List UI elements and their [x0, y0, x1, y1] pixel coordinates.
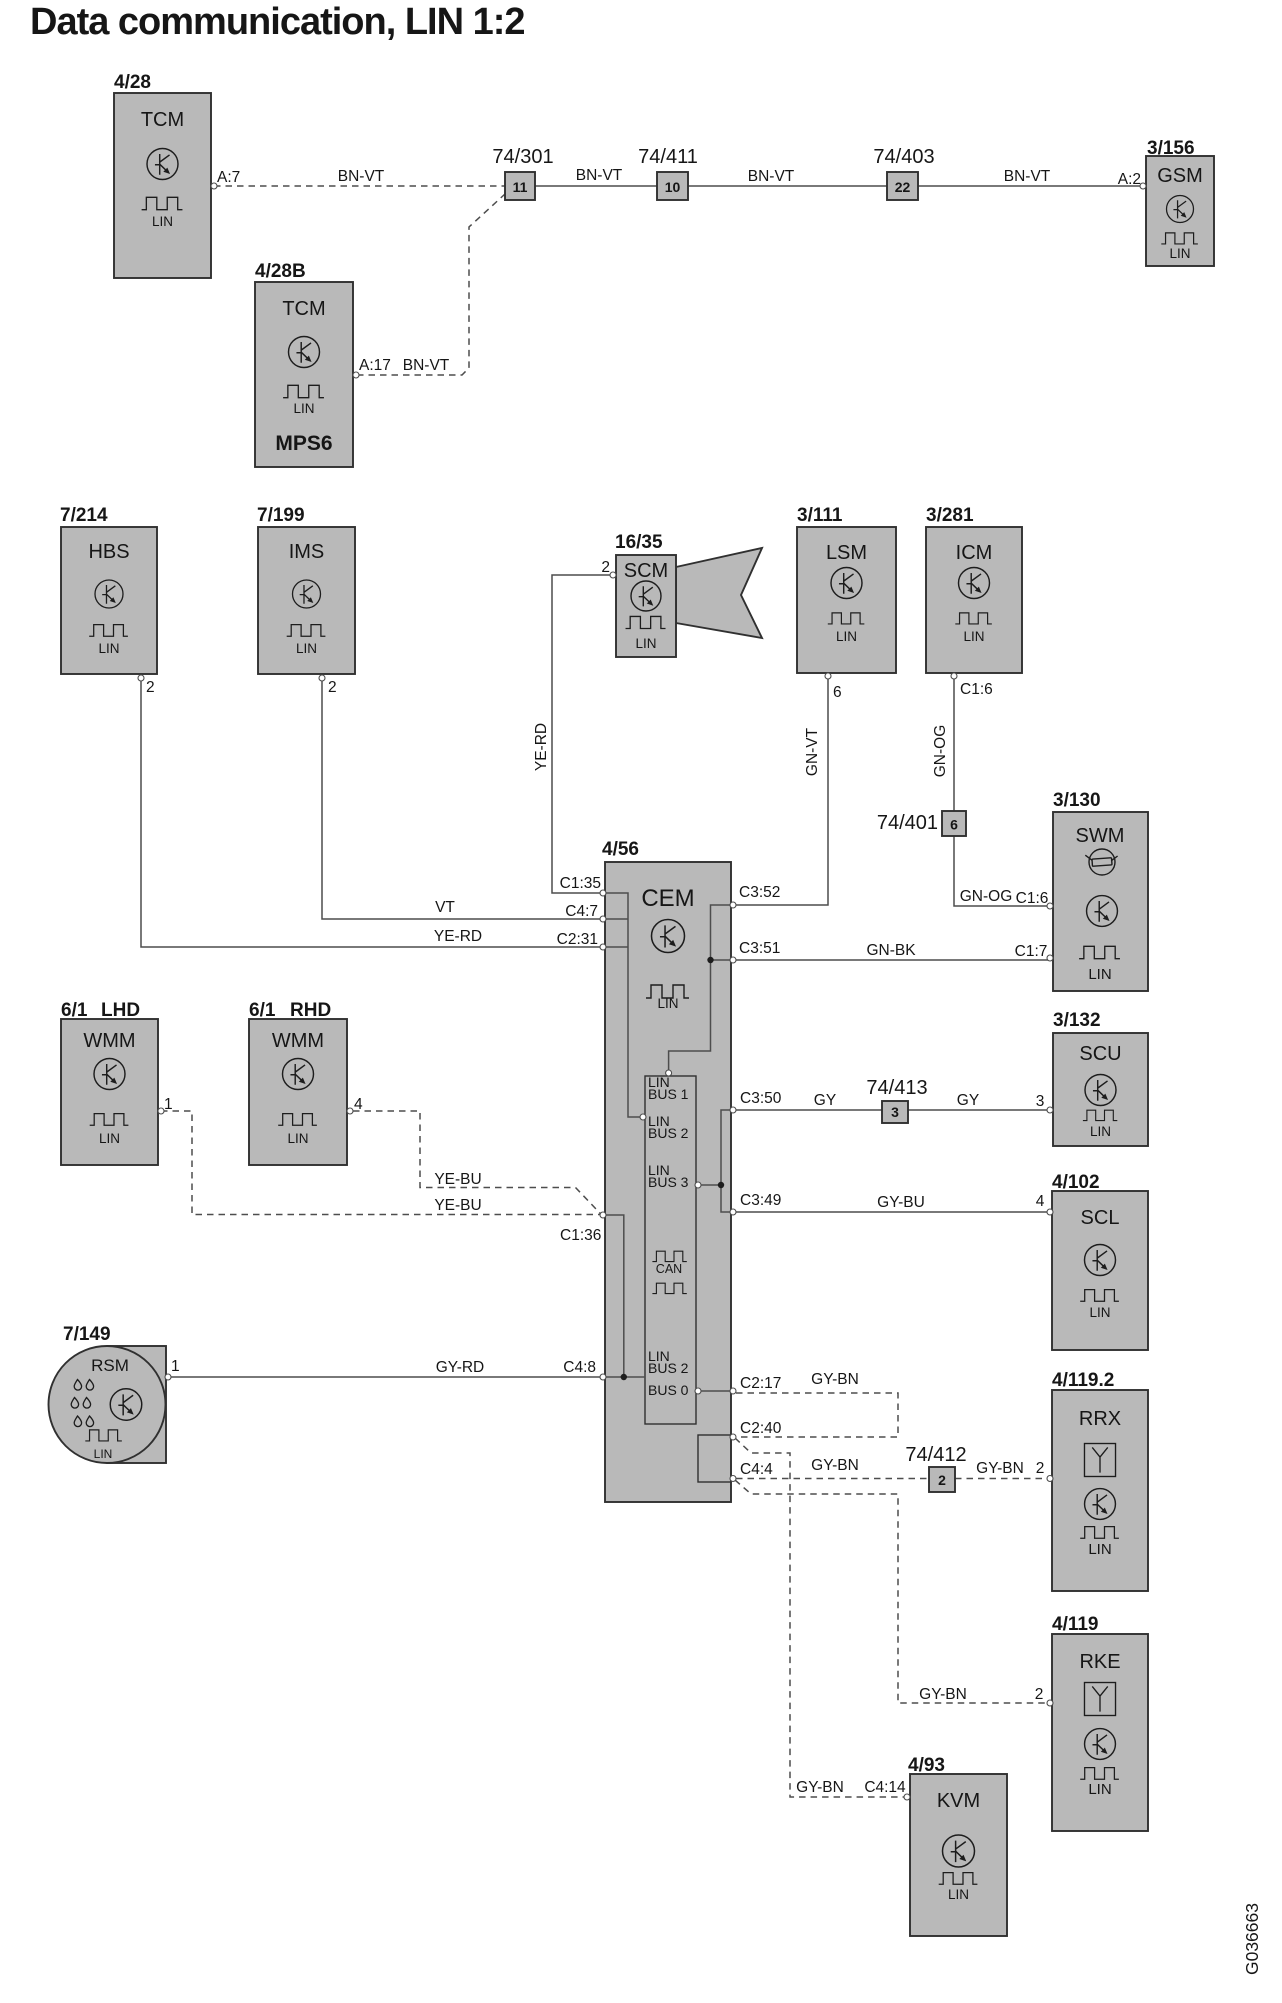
- svg-text:11: 11: [513, 179, 528, 195]
- svg-text:3: 3: [1036, 1093, 1045, 1110]
- svg-text:2: 2: [938, 1472, 946, 1488]
- svg-text:C3:49: C3:49: [740, 1192, 781, 1209]
- svg-text:C4:8: C4:8: [563, 1359, 596, 1376]
- svg-text:BUS 0: BUS 0: [648, 1382, 689, 1398]
- svg-text:74/401: 74/401: [877, 812, 938, 834]
- svg-text:TCM: TCM: [141, 109, 184, 131]
- svg-text:MPS6: MPS6: [275, 432, 332, 455]
- svg-text:LHD: LHD: [101, 1000, 140, 1021]
- svg-text:ICM: ICM: [956, 542, 993, 564]
- svg-text:LIN: LIN: [948, 1887, 969, 1902]
- svg-text:1: 1: [171, 1358, 180, 1375]
- svg-text:SWM: SWM: [1076, 825, 1125, 847]
- svg-text:74/301: 74/301: [492, 146, 553, 168]
- svg-text:YE-RD: YE-RD: [434, 928, 482, 945]
- svg-text:TCM: TCM: [282, 298, 325, 320]
- svg-text:4: 4: [354, 1096, 363, 1113]
- svg-text:C1:6: C1:6: [960, 681, 993, 698]
- svg-text:KVM: KVM: [937, 1790, 980, 1812]
- svg-text:LIN: LIN: [1088, 1541, 1111, 1558]
- svg-text:C2:31: C2:31: [557, 931, 598, 948]
- svg-text:SCM: SCM: [624, 560, 668, 582]
- svg-text:C1:35: C1:35: [560, 875, 601, 892]
- svg-text:BN-VT: BN-VT: [748, 168, 795, 185]
- svg-text:3: 3: [891, 1104, 899, 1120]
- svg-text:HBS: HBS: [88, 541, 129, 563]
- svg-text:BN-VT: BN-VT: [338, 168, 385, 185]
- svg-text:WMM: WMM: [272, 1030, 324, 1052]
- svg-text:C4:14: C4:14: [864, 1779, 906, 1796]
- svg-text:GN-VT: GN-VT: [804, 727, 821, 776]
- svg-text:LIN: LIN: [836, 629, 857, 644]
- svg-text:BN-VT: BN-VT: [403, 357, 450, 374]
- svg-text:SCL: SCL: [1081, 1207, 1120, 1229]
- svg-text:3/132: 3/132: [1053, 1010, 1101, 1031]
- svg-text:GY-RD: GY-RD: [436, 1359, 485, 1376]
- svg-text:LIN: LIN: [635, 636, 656, 651]
- svg-text:10: 10: [665, 179, 681, 195]
- svg-text:LIN: LIN: [657, 996, 678, 1011]
- svg-text:BUS 1: BUS 1: [648, 1086, 689, 1102]
- svg-text:GY: GY: [957, 1092, 979, 1109]
- svg-text:A:7: A:7: [217, 169, 240, 186]
- svg-text:A:2: A:2: [1118, 171, 1141, 188]
- svg-text:SCU: SCU: [1079, 1043, 1121, 1065]
- svg-text:GY-BN: GY-BN: [919, 1686, 967, 1703]
- svg-text:C2:17: C2:17: [740, 1375, 781, 1392]
- svg-text:3/156: 3/156: [1147, 138, 1195, 159]
- svg-text:22: 22: [895, 179, 911, 195]
- svg-text:GY-BN: GY-BN: [811, 1371, 859, 1388]
- svg-text:4/28B: 4/28B: [255, 261, 306, 282]
- svg-text:74/411: 74/411: [638, 146, 698, 168]
- svg-text:74/413: 74/413: [866, 1077, 927, 1099]
- svg-text:2: 2: [146, 679, 155, 696]
- svg-text:C3:50: C3:50: [740, 1090, 782, 1107]
- svg-text:6/1: 6/1: [61, 1000, 88, 1021]
- svg-text:4/56: 4/56: [602, 839, 639, 860]
- svg-text:WMM: WMM: [83, 1030, 135, 1052]
- svg-text:4/119: 4/119: [1052, 1614, 1099, 1635]
- svg-text:LIN: LIN: [963, 629, 984, 644]
- svg-text:3/111: 3/111: [797, 505, 843, 526]
- svg-text:LIN: LIN: [1088, 1781, 1111, 1798]
- svg-text:LIN: LIN: [98, 641, 119, 656]
- svg-text:CAN: CAN: [656, 1262, 682, 1276]
- svg-text:74/412: 74/412: [905, 1444, 966, 1466]
- svg-text:7/149: 7/149: [63, 1324, 111, 1345]
- svg-text:LSM: LSM: [826, 542, 867, 564]
- svg-text:LIN: LIN: [293, 401, 314, 416]
- svg-text:2: 2: [1035, 1686, 1044, 1703]
- svg-text:7/199: 7/199: [257, 505, 305, 526]
- svg-text:GY-BU: GY-BU: [877, 1194, 925, 1211]
- svg-text:YE-RD: YE-RD: [533, 723, 550, 771]
- svg-text:4/119.2: 4/119.2: [1052, 1370, 1114, 1391]
- svg-text:4: 4: [1036, 1193, 1045, 1210]
- svg-text:LIN: LIN: [152, 214, 173, 229]
- svg-text:RKE: RKE: [1079, 1651, 1120, 1673]
- svg-text:6: 6: [950, 817, 958, 833]
- svg-text:C3:52: C3:52: [739, 884, 780, 901]
- svg-text:LIN: LIN: [94, 1447, 113, 1461]
- svg-text:RHD: RHD: [290, 1000, 331, 1021]
- svg-text:GN-OG: GN-OG: [960, 888, 1013, 905]
- svg-text:4/102: 4/102: [1052, 1172, 1100, 1193]
- svg-text:16/35: 16/35: [615, 532, 663, 553]
- svg-text:2: 2: [601, 559, 610, 576]
- svg-text:BUS 2: BUS 2: [648, 1125, 689, 1141]
- svg-text:3/281: 3/281: [926, 505, 974, 526]
- svg-text:GY-BN: GY-BN: [811, 1457, 859, 1474]
- svg-text:LIN: LIN: [99, 1131, 120, 1146]
- svg-text:YE-BU: YE-BU: [434, 1171, 481, 1188]
- svg-text:GY-BN: GY-BN: [976, 1460, 1024, 1477]
- svg-text:3/130: 3/130: [1053, 790, 1101, 811]
- svg-text:RSM: RSM: [91, 1356, 129, 1375]
- svg-text:BUS 2: BUS 2: [648, 1360, 689, 1376]
- svg-text:BN-VT: BN-VT: [576, 167, 623, 184]
- svg-text:GN-OG: GN-OG: [932, 725, 949, 778]
- svg-text:Data communication, LIN 1:2: Data communication, LIN 1:2: [30, 1, 525, 43]
- svg-text:C4:7: C4:7: [565, 903, 598, 920]
- svg-text:6: 6: [833, 684, 842, 701]
- svg-text:LIN: LIN: [1089, 1305, 1110, 1320]
- svg-text:BUS 3: BUS 3: [648, 1174, 689, 1190]
- svg-text:GN-BK: GN-BK: [866, 942, 916, 959]
- svg-text:A:17: A:17: [359, 357, 391, 374]
- svg-text:GSM: GSM: [1157, 165, 1203, 187]
- svg-text:C1:7: C1:7: [1015, 943, 1048, 960]
- svg-text:LIN: LIN: [296, 641, 317, 656]
- svg-text:C3:51: C3:51: [739, 940, 780, 957]
- svg-text:BN-VT: BN-VT: [1004, 168, 1051, 185]
- svg-text:LIN: LIN: [1088, 966, 1111, 983]
- svg-text:4/93: 4/93: [908, 1755, 945, 1776]
- svg-text:GY-BN: GY-BN: [796, 1779, 844, 1796]
- svg-text:C4:4: C4:4: [740, 1461, 773, 1478]
- svg-text:LIN: LIN: [1169, 246, 1190, 261]
- svg-text:2: 2: [1036, 1460, 1045, 1477]
- svg-text:CEM: CEM: [641, 885, 694, 912]
- svg-text:RRX: RRX: [1079, 1408, 1121, 1430]
- svg-text:C1:36: C1:36: [560, 1227, 601, 1244]
- svg-text:7/214: 7/214: [60, 505, 108, 526]
- svg-text:YE-BU: YE-BU: [434, 1197, 481, 1214]
- svg-text:C1:6: C1:6: [1016, 890, 1049, 907]
- svg-text:C2:40: C2:40: [740, 1420, 782, 1437]
- svg-text:74/403: 74/403: [873, 146, 934, 168]
- svg-text:6/1: 6/1: [249, 1000, 276, 1021]
- svg-text:LIN: LIN: [1090, 1124, 1111, 1139]
- svg-text:GY: GY: [814, 1092, 836, 1109]
- svg-text:G036663: G036663: [1242, 1903, 1262, 1975]
- svg-text:1: 1: [164, 1096, 173, 1113]
- svg-text:2: 2: [328, 679, 337, 696]
- svg-text:IMS: IMS: [289, 541, 325, 563]
- svg-text:VT: VT: [435, 899, 455, 916]
- svg-text:LIN: LIN: [287, 1131, 308, 1146]
- svg-text:4/28: 4/28: [114, 72, 151, 93]
